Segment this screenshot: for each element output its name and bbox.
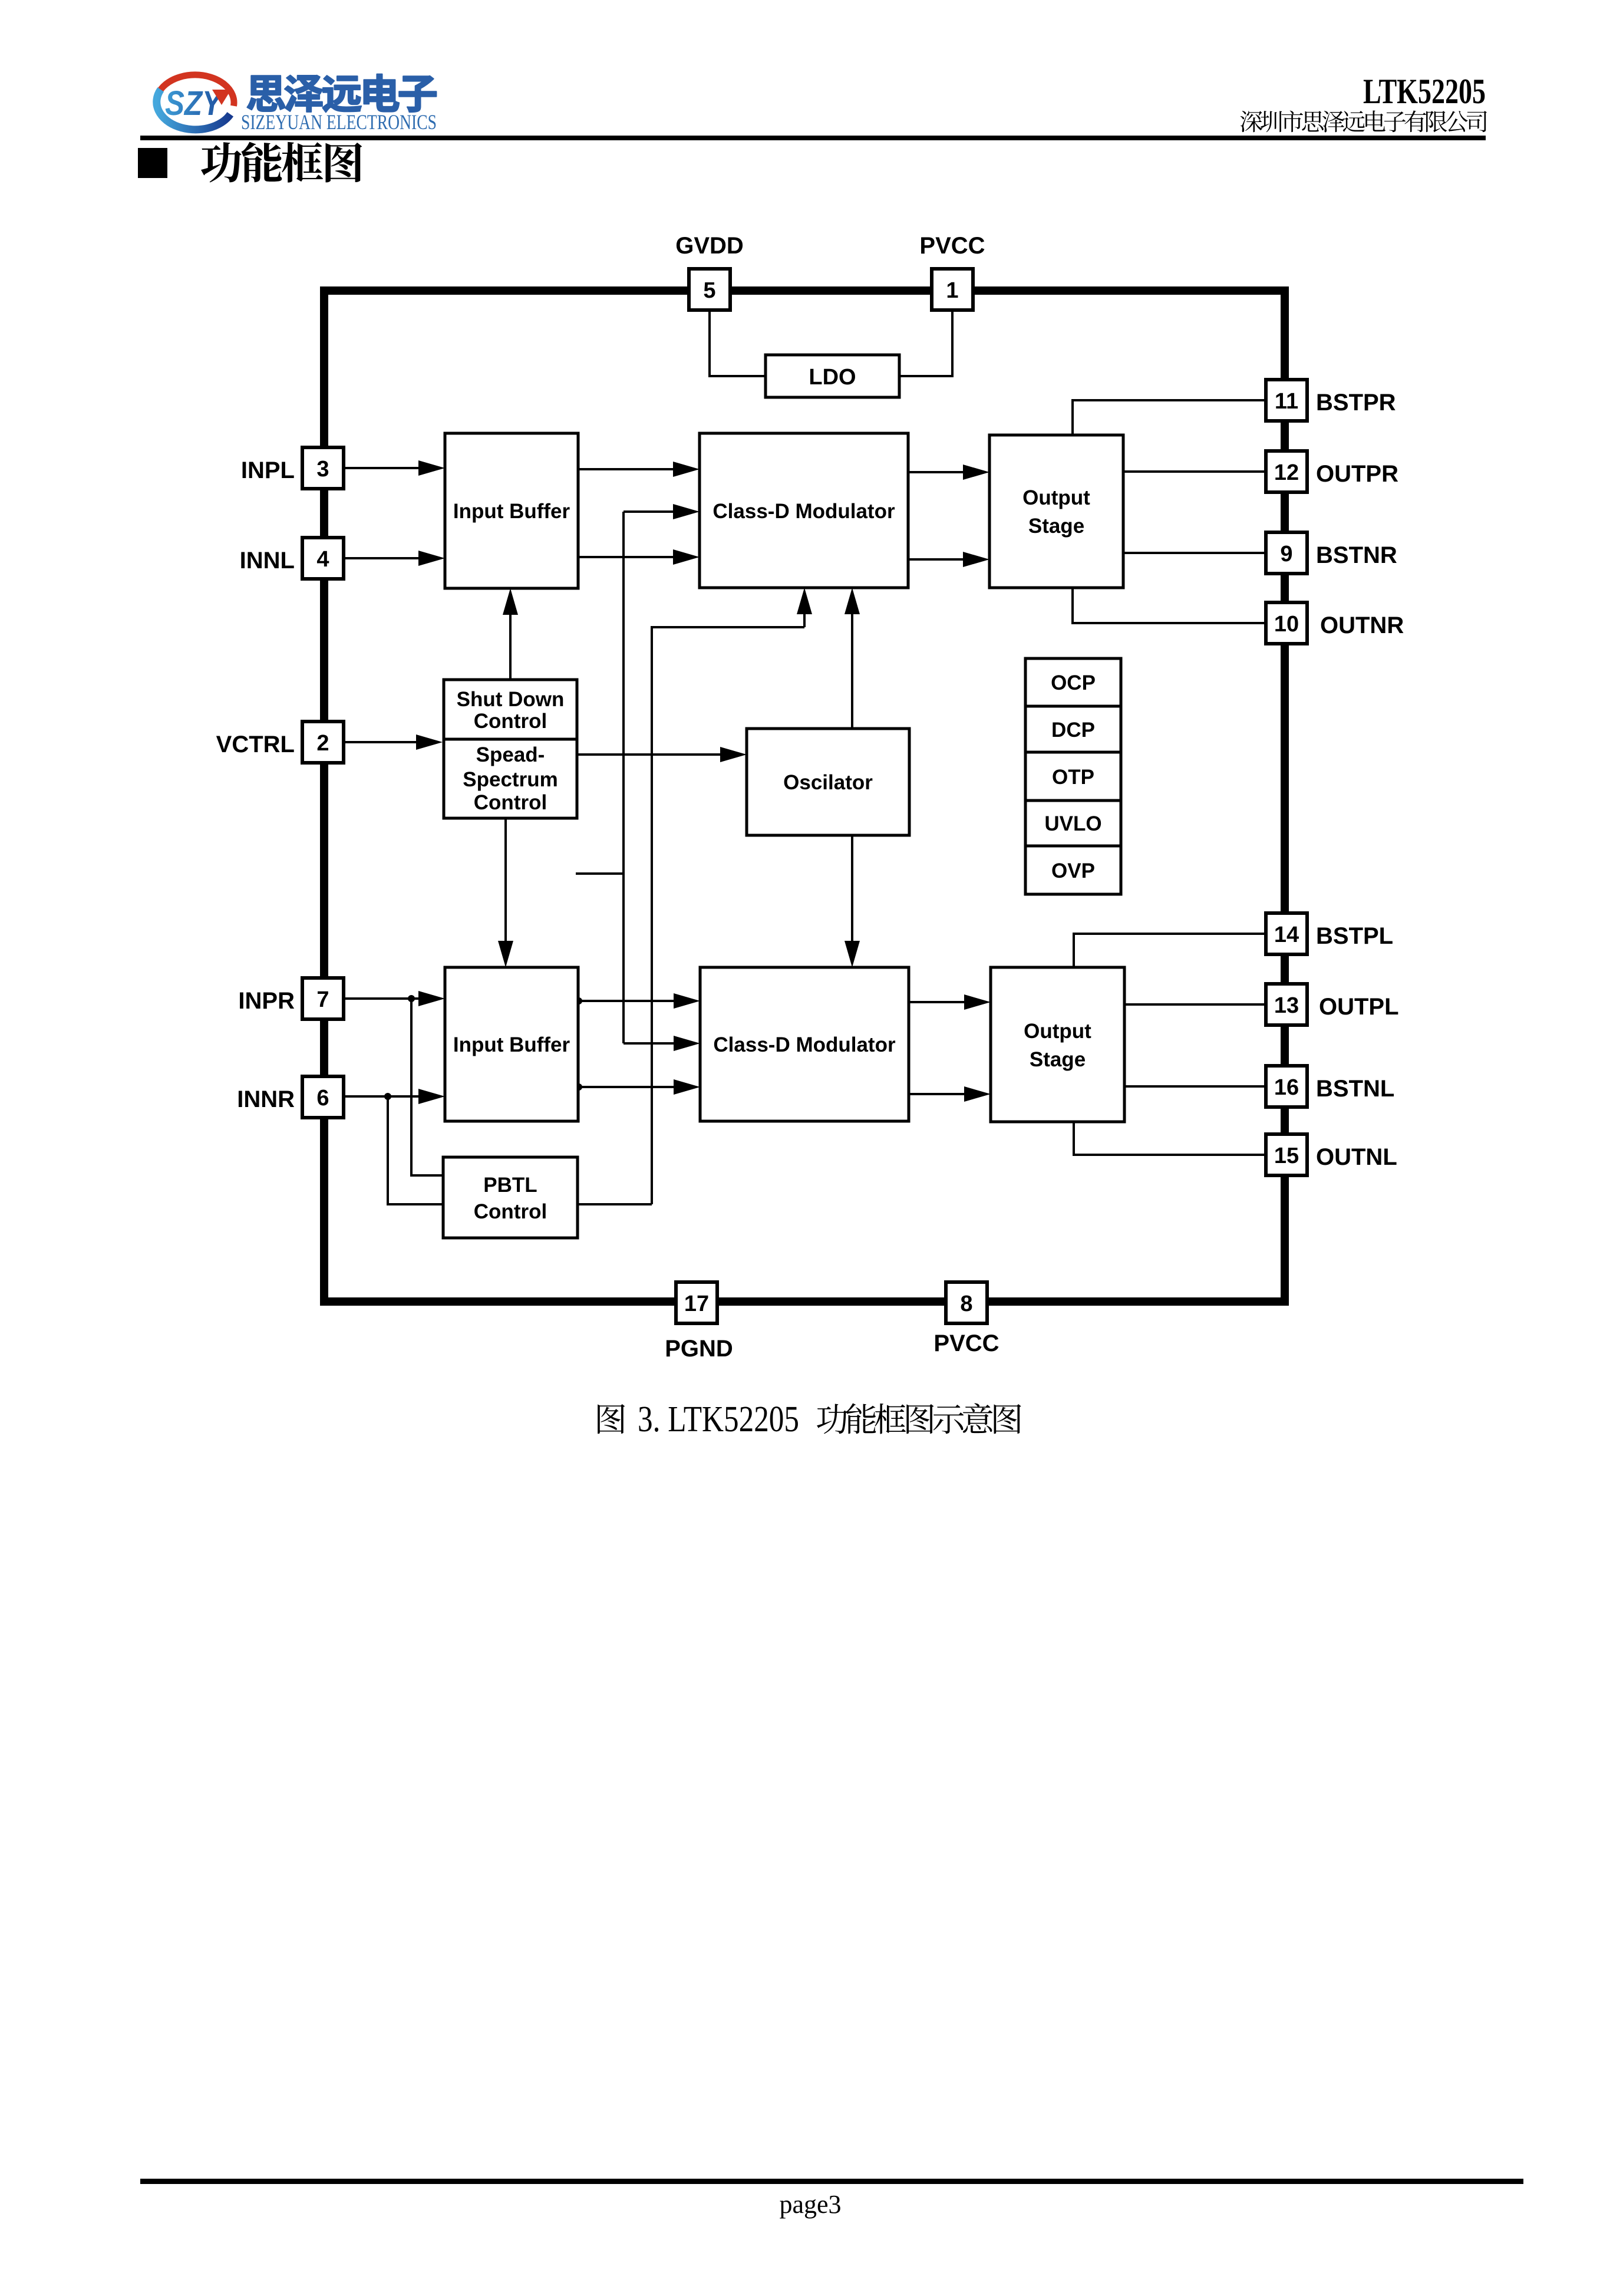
svg-text:UVLO: UVLO xyxy=(1044,812,1101,835)
svg-text:6: 6 xyxy=(316,1086,329,1111)
pin 13 OUTPL xyxy=(1266,984,1307,1025)
svg-text:OUTPL: OUTPL xyxy=(1319,994,1399,1020)
block OCP xyxy=(1025,658,1121,706)
pin 10 OUTNR xyxy=(1266,602,1307,644)
svg-text:4: 4 xyxy=(316,547,329,572)
block DCP xyxy=(1025,706,1121,752)
svg-text:8: 8 xyxy=(960,1292,972,1316)
svg-text:OUTPR: OUTPR xyxy=(1316,461,1398,487)
svg-text:17: 17 xyxy=(684,1292,709,1316)
block lower Input Buffer xyxy=(445,967,578,1121)
pin 3 INPL xyxy=(302,447,344,489)
pin 4 INNL xyxy=(302,538,344,579)
pin 12 OUTPR xyxy=(1266,451,1307,492)
logo red triangle xyxy=(212,90,231,105)
wire lower Output Stage to pin 14 BSTPL xyxy=(1074,934,1265,967)
chip outer border xyxy=(324,291,1285,1302)
svg-text:2: 2 xyxy=(316,731,329,756)
block LDO xyxy=(766,355,899,397)
block OTP xyxy=(1025,752,1121,801)
block upper Class-D Modulator xyxy=(700,433,908,588)
block lower Class-D Modulator xyxy=(700,967,909,1121)
wire Oscilator to lower Class-D Modulator xyxy=(845,835,860,967)
svg-text:INPR: INPR xyxy=(238,988,295,1014)
pin 8 PVCC xyxy=(946,1282,987,1323)
wire lower Output Stage to pin 13 OUTPL xyxy=(1124,1003,1265,1006)
wire INNR branch to PBTL Control xyxy=(388,1096,443,1204)
svg-text:16: 16 xyxy=(1274,1075,1299,1100)
wire lower Class-D to Output Stage (bottom) xyxy=(909,1086,991,1102)
header company 深圳市思泽远电子有限公司 xyxy=(1241,110,1487,132)
pin 17 PGND xyxy=(676,1282,717,1323)
wire upper Class-D to Output Stage (top) xyxy=(908,465,989,480)
block OVP xyxy=(1025,846,1121,894)
footer rule xyxy=(140,2179,1523,2184)
svg-text:Spead-: Spead- xyxy=(476,743,545,766)
svg-text:Spectrum: Spectrum xyxy=(463,768,558,791)
svg-text:7: 7 xyxy=(316,987,329,1012)
svg-text:11: 11 xyxy=(1275,389,1298,414)
pin 7 INPR xyxy=(302,978,344,1019)
svg-text:INNR: INNR xyxy=(237,1086,295,1112)
wire INPR to lower Input Buffer xyxy=(345,991,445,1006)
svg-text:Class-D Modulator: Class-D Modulator xyxy=(712,500,895,523)
pin 2 VCTRL xyxy=(302,722,344,763)
wire vertical bus V1 xyxy=(622,512,625,1043)
wire lower Input Buffer to Class-D (top) xyxy=(578,993,700,1009)
svg-text:PGND: PGND xyxy=(665,1336,733,1362)
svg-text:BSTPL: BSTPL xyxy=(1316,923,1393,949)
wire Spread-Spectrum Control to lower Input Buffer xyxy=(498,818,513,967)
wire upper Output Stage to pin 9 BSTNR xyxy=(1123,552,1265,554)
svg-text:OVP: OVP xyxy=(1051,859,1095,882)
junction dot INNR branch xyxy=(384,1093,391,1100)
pin 15 OUTNL xyxy=(1266,1134,1307,1175)
wire V2 arrow into upper Class-D Modulator bottom xyxy=(797,588,812,627)
svg-text:Class-D Modulator: Class-D Modulator xyxy=(713,1033,896,1056)
svg-text:3. LTK52205: 3. LTK52205 xyxy=(638,1399,799,1439)
svg-text:PVCC: PVCC xyxy=(933,1330,999,1356)
block UVLO xyxy=(1025,801,1121,846)
svg-text:12: 12 xyxy=(1274,460,1299,485)
header rule xyxy=(140,136,1486,140)
pin 9 BSTNR xyxy=(1266,532,1307,574)
svg-text:Control: Control xyxy=(474,1200,547,1223)
wire lower Output Stage to pin 16 BSTNL xyxy=(1124,1085,1265,1088)
svg-text:OUTNL: OUTNL xyxy=(1316,1144,1397,1170)
svg-text:OTP: OTP xyxy=(1052,766,1094,789)
svg-text:1: 1 xyxy=(946,278,958,303)
wire Spread-Spectrum Control to Oscilator xyxy=(577,747,747,762)
svg-text:PBTL: PBTL xyxy=(483,1174,537,1197)
wire upper Class-D to Output Stage (bottom) xyxy=(908,552,989,567)
svg-text:Oscilator: Oscilator xyxy=(783,771,873,794)
pin 1 PVCC xyxy=(932,269,973,310)
block Oscilator xyxy=(747,729,909,835)
svg-text:GVDD: GVDD xyxy=(675,233,744,259)
svg-text:LTK52205: LTK52205 xyxy=(1363,72,1486,111)
svg-text:Control: Control xyxy=(474,791,547,814)
block lower Output Stage xyxy=(991,967,1124,1122)
wire upper Input Buffer to Class-D (bottom) xyxy=(578,549,700,565)
svg-text:BSTPR: BSTPR xyxy=(1316,390,1396,416)
wire stub to V1 xyxy=(576,872,624,875)
svg-text:OUTNR: OUTNR xyxy=(1320,612,1404,638)
block PBTL Control xyxy=(443,1157,578,1238)
pin 5 GVDD xyxy=(689,269,730,310)
wire INNL to upper Input Buffer xyxy=(345,551,445,566)
svg-text:BSTNL: BSTNL xyxy=(1316,1076,1394,1102)
svg-text:LDO: LDO xyxy=(809,365,856,390)
junction dot lower Input Buffer output bottom xyxy=(575,1083,582,1091)
wire Oscilator to upper Class-D Modulator xyxy=(845,588,860,729)
caption 图 xyxy=(598,1404,625,1434)
wire VCTRL to Shut Down Control xyxy=(345,734,443,750)
block upper Output Stage xyxy=(989,435,1123,588)
svg-text:INNL: INNL xyxy=(240,548,295,574)
wire upper Output Stage to pin 10 OUTNR xyxy=(1073,588,1265,623)
wire INPL to upper Input Buffer xyxy=(345,460,445,476)
logo text 思泽远电子 xyxy=(247,74,436,113)
svg-text:page3: page3 xyxy=(779,2190,841,2219)
wire upper Output Stage to pin 12 OUTPR xyxy=(1123,470,1265,473)
wire PVCC pin1 to LDO xyxy=(899,311,952,376)
wire V1 into lower Class-D Modulator xyxy=(624,1036,700,1051)
wire PBTL output bus V2 xyxy=(578,627,804,1204)
wire upper Output Stage to pin 11 BSTPR xyxy=(1073,400,1265,435)
svg-text:DCP: DCP xyxy=(1051,719,1095,742)
svg-text:Stage: Stage xyxy=(1030,1048,1086,1071)
svg-text:Input Buffer: Input Buffer xyxy=(453,1033,570,1056)
wire upper Input Buffer to Class-D (top) xyxy=(578,462,700,477)
svg-text:SIZEYUAN ELECTRONICS: SIZEYUAN ELECTRONICS xyxy=(241,110,437,134)
svg-text:Output: Output xyxy=(1024,1020,1091,1043)
svg-text:Shut Down: Shut Down xyxy=(457,688,565,711)
section title 功能框图 xyxy=(201,142,362,183)
block Shut Down / Spread-Spectrum Control xyxy=(444,680,577,818)
section title bullet square xyxy=(138,148,167,178)
wire INPR branch to PBTL Control xyxy=(411,999,443,1175)
svg-text:PVCC: PVCC xyxy=(919,233,985,259)
junction dot lower Input Buffer output top xyxy=(575,997,582,1004)
svg-text:Control: Control xyxy=(474,710,547,733)
logo SZY ellipse blue arc xyxy=(157,90,230,130)
svg-text:5: 5 xyxy=(703,278,715,303)
svg-text:INPL: INPL xyxy=(241,457,295,483)
pin 6 INNR xyxy=(302,1076,344,1118)
svg-text:13: 13 xyxy=(1274,993,1299,1018)
wire lower Output Stage to pin 15 OUTNL xyxy=(1074,1122,1265,1155)
wire GVDD pin5 to LDO xyxy=(710,311,766,376)
svg-text:10: 10 xyxy=(1274,612,1299,637)
svg-text:VCTRL: VCTRL xyxy=(216,732,295,757)
svg-text:Stage: Stage xyxy=(1028,515,1084,538)
svg-text:Output: Output xyxy=(1022,486,1090,509)
svg-text:OCP: OCP xyxy=(1051,671,1096,694)
wire lower Class-D to Output Stage (top) xyxy=(909,994,991,1010)
svg-text:BSTNR: BSTNR xyxy=(1316,542,1397,568)
svg-text:9: 9 xyxy=(1280,542,1292,566)
junction dot INPR branch xyxy=(408,995,415,1002)
svg-text:Input Buffer: Input Buffer xyxy=(453,500,570,523)
logo SZY ellipse red arc xyxy=(156,75,234,106)
wire INNR to lower Input Buffer xyxy=(345,1089,445,1104)
svg-text:15: 15 xyxy=(1274,1144,1299,1168)
pin 16 BSTNL xyxy=(1266,1066,1307,1107)
svg-text:14: 14 xyxy=(1274,923,1299,947)
svg-text:3: 3 xyxy=(316,457,329,482)
caption 功能框图示意图 xyxy=(817,1403,1021,1434)
pin 11 BSTPR xyxy=(1266,380,1307,421)
wire lower Input Buffer to Class-D (bottom) xyxy=(578,1079,700,1095)
pin 14 BSTPL xyxy=(1266,913,1307,954)
wire V1 into upper Class-D Modulator xyxy=(624,504,700,519)
wire Shut Down Control to upper Input Buffer xyxy=(503,588,518,680)
block upper Input Buffer xyxy=(445,433,578,588)
